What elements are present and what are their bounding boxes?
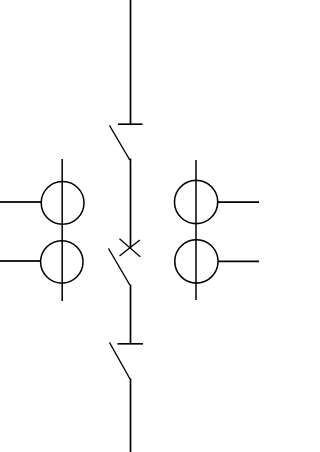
current transformer CT2 (left lower) [41, 241, 83, 283]
wire: circuit breaker to QS2 [130, 285, 132, 345]
current transformer CT1 (left upper) [41, 182, 84, 225]
disconnector QS2 fixed contact bar [118, 343, 144, 345]
circuit breaker QF blade (open) [109, 249, 130, 286]
wire: right instrument riser [195, 160, 197, 300]
disconnector QS2 blade (open) [110, 343, 131, 380]
wire: left instrument riser [61, 159, 63, 301]
wire: CT2 secondary tap (left lower) [0, 260, 41, 262]
disconnector QS1 blade (open) [110, 126, 130, 161]
wire: CT3 secondary tap (right upper) [218, 201, 259, 203]
disconnector QS1 fixed contact bar [118, 123, 143, 125]
circuit breaker QF fixed contact X [120, 239, 141, 257]
wire: main feeder incoming (top) [130, 0, 132, 124]
wire: CT1 secondary tap (left upper) [0, 201, 41, 203]
wire: CT4 secondary tap (right lower) [218, 260, 259, 262]
wire: outgoing feeder (bottom) [130, 379, 132, 452]
current transformer CT3 (right upper) [175, 180, 218, 223]
wire: QS1 to circuit breaker [130, 159, 132, 249]
current transformer CT4 (right lower) [175, 240, 218, 283]
